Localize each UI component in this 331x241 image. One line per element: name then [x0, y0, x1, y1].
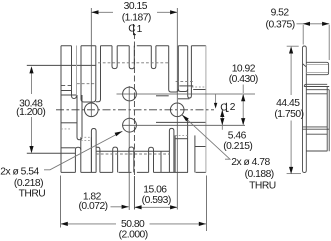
- svg-text:15.06: 15.06: [143, 184, 167, 195]
- svg-text:2: 2: [230, 102, 236, 113]
- svg-text:44.45: 44.45: [276, 98, 300, 109]
- svg-text:(1.187): (1.187): [122, 13, 151, 24]
- svg-text:2x ø 5.54: 2x ø 5.54: [0, 166, 39, 177]
- svg-text:(0.593): (0.593): [142, 195, 171, 206]
- svg-text:10.92: 10.92: [232, 63, 256, 74]
- svg-text:(2.000): (2.000): [119, 229, 148, 240]
- svg-text:(0.215): (0.215): [223, 141, 252, 152]
- svg-text:THRU: THRU: [249, 181, 276, 192]
- svg-text:30.15: 30.15: [124, 1, 148, 12]
- svg-text:1: 1: [137, 24, 143, 35]
- svg-text:(0.188): (0.188): [245, 169, 274, 180]
- svg-text:(0.430): (0.430): [229, 74, 258, 85]
- svg-text:2x ø 4.78: 2x ø 4.78: [231, 157, 270, 168]
- svg-text:(1.750): (1.750): [274, 109, 303, 120]
- svg-text:C: C: [128, 24, 135, 35]
- svg-text:9.52: 9.52: [271, 7, 290, 18]
- svg-text:THRU: THRU: [19, 189, 46, 200]
- svg-text:(0.072): (0.072): [78, 201, 107, 212]
- svg-text:(0.375): (0.375): [266, 19, 295, 30]
- svg-text:(1.200): (1.200): [16, 107, 45, 118]
